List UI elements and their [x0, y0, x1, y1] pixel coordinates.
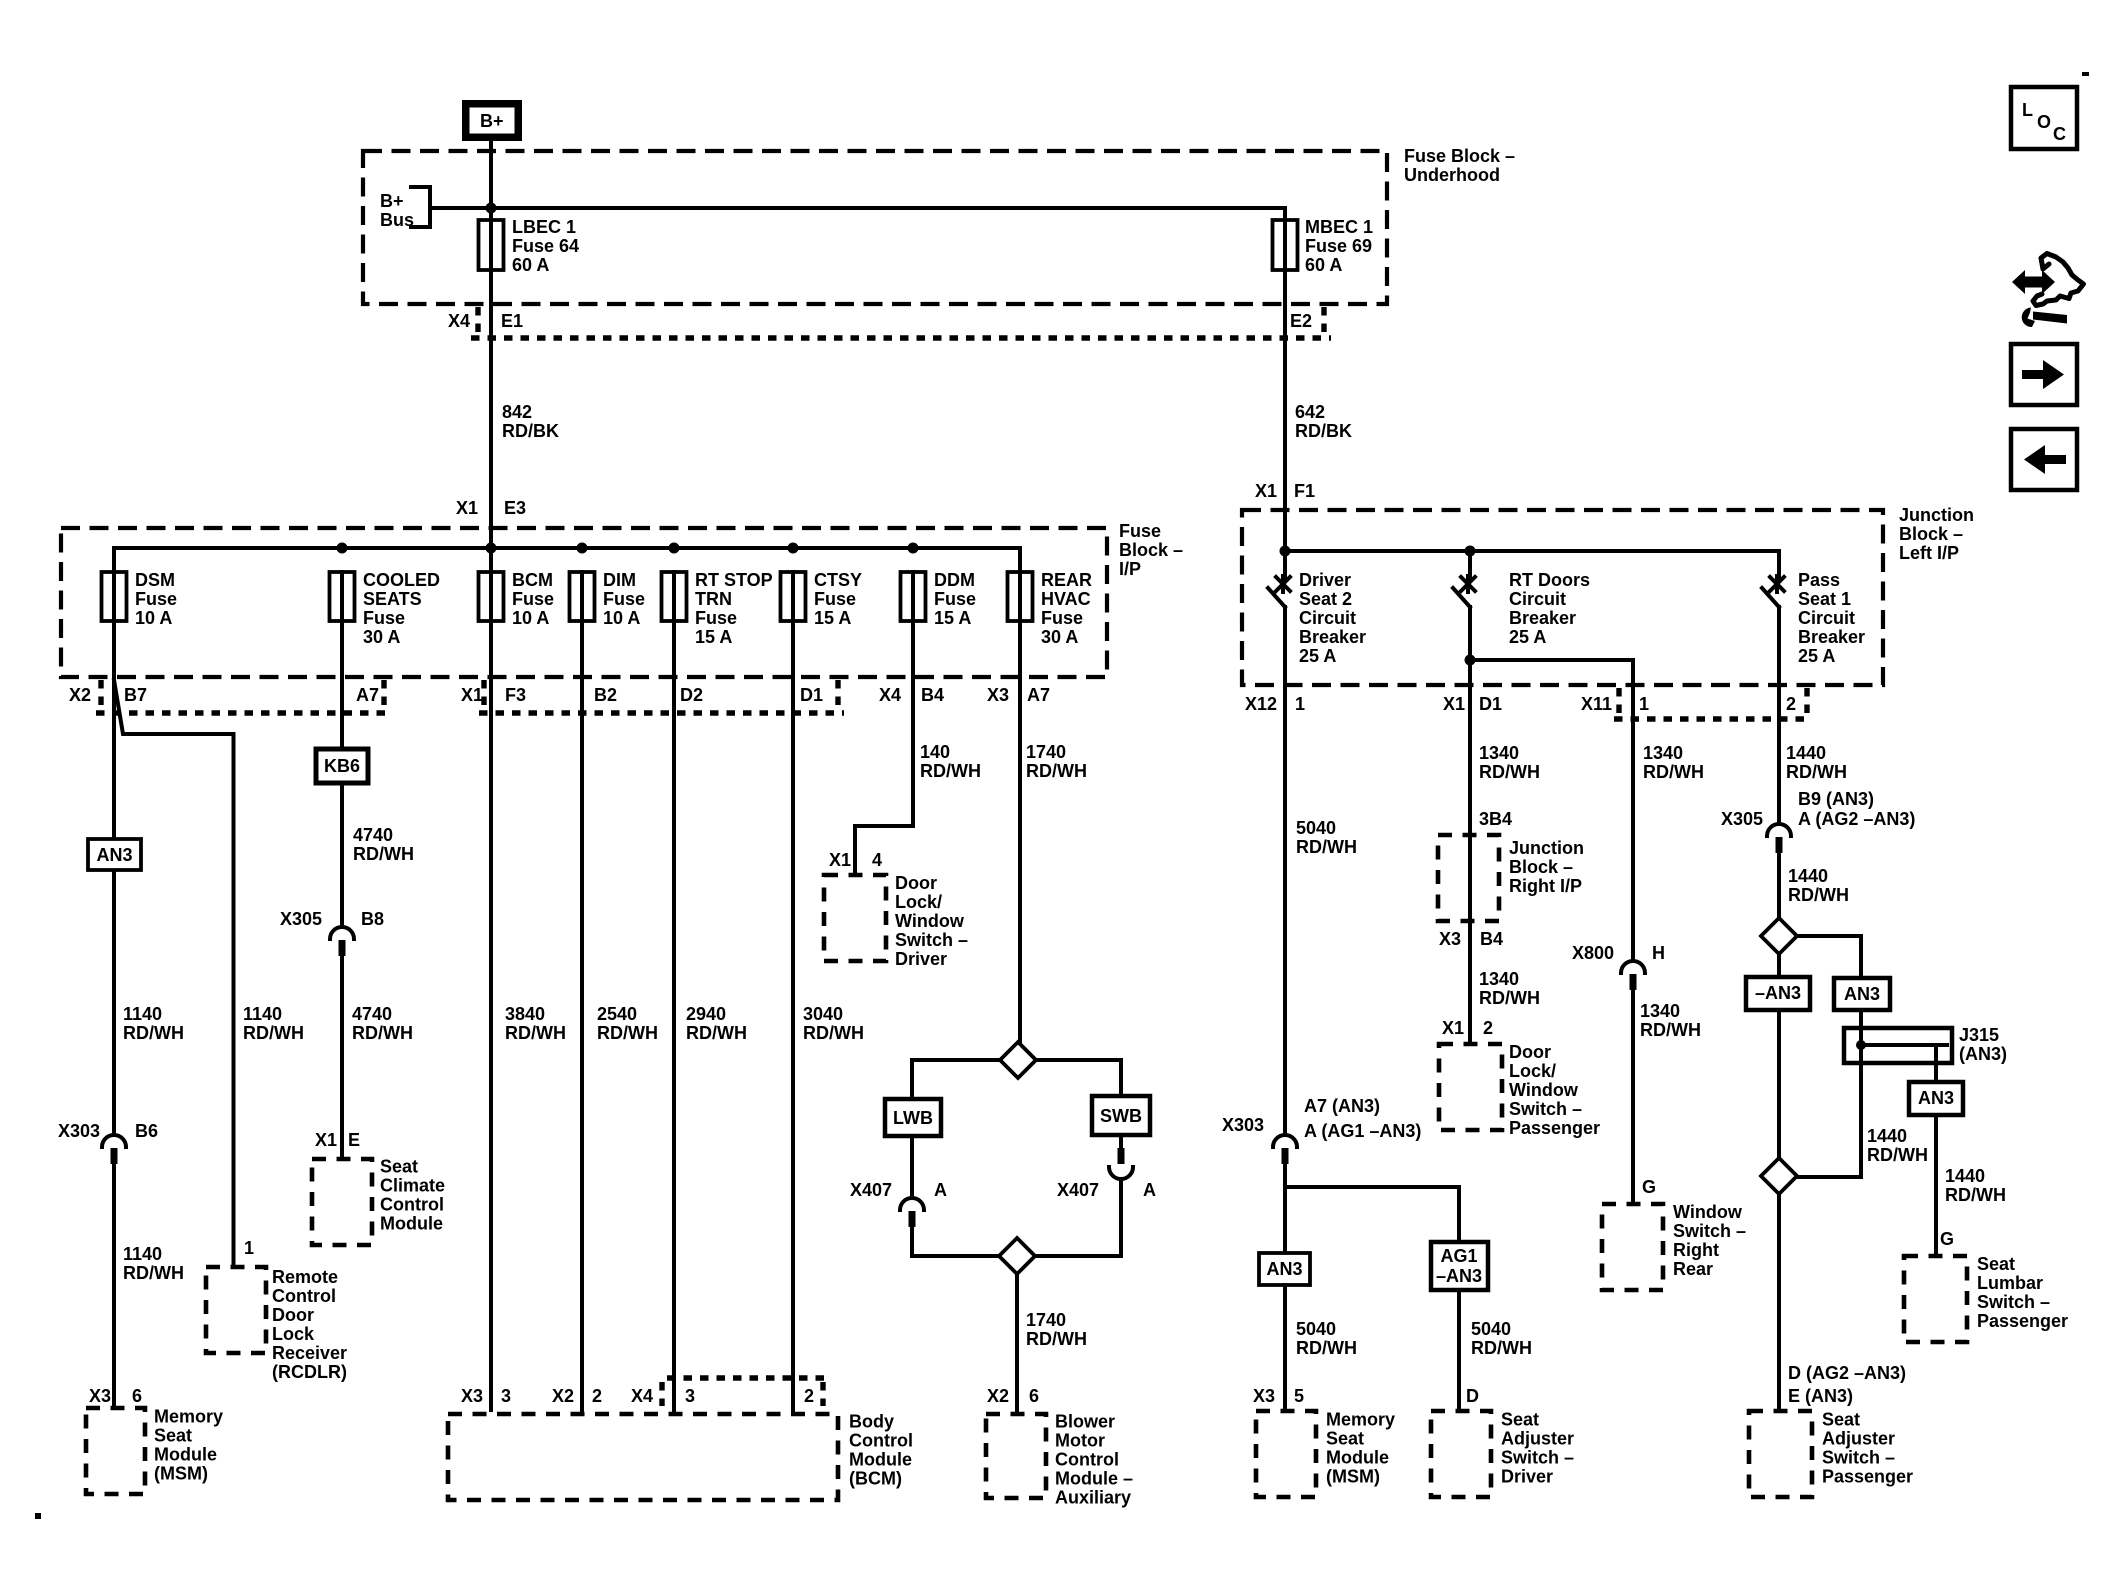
wire to LWB	[912, 1060, 1000, 1099]
svg-text:X2: X2	[987, 1386, 1009, 1406]
seat adjuster switch passenger	[1749, 1410, 1913, 1498]
wire 4740 RD/WH lower	[352, 1004, 413, 1043]
svg-text:X1: X1	[829, 850, 851, 870]
svg-text:Control: Control	[1055, 1450, 1119, 1470]
svg-text:Climate: Climate	[380, 1176, 445, 1196]
svg-text:Breaker: Breaker	[1299, 627, 1366, 647]
svg-text:G: G	[1940, 1229, 1954, 1249]
svg-text:1440: 1440	[1867, 1126, 1907, 1146]
svg-text:Module: Module	[154, 1445, 217, 1465]
door lock window switch passenger	[1439, 1042, 1600, 1138]
svg-text:RD/WH: RD/WH	[505, 1023, 566, 1043]
connector X303 B6	[58, 1121, 158, 1408]
svg-text:Fuse: Fuse	[603, 589, 645, 609]
svg-text:Fuse: Fuse	[814, 589, 856, 609]
wire 5040 RD/WH to seat adjuster	[1459, 1290, 1532, 1408]
label AN3 right	[1259, 1253, 1310, 1285]
svg-text:Passenger: Passenger	[1822, 1467, 1913, 1487]
svg-text:X4: X4	[879, 685, 901, 705]
svg-text:Control: Control	[380, 1195, 444, 1215]
junction	[1465, 655, 1476, 666]
svg-text:Switch –: Switch –	[1673, 1221, 1746, 1241]
svg-text:1140: 1140	[243, 1004, 282, 1024]
svg-text:J315: J315	[1959, 1025, 1999, 1045]
remote control door lock receiver RCDLR	[206, 1267, 347, 1382]
svg-text:X3: X3	[987, 685, 1009, 705]
svg-text:RD/WH: RD/WH	[1296, 837, 1357, 857]
wire branch to X11	[1470, 660, 1633, 960]
svg-text:1740: 1740	[1026, 1310, 1066, 1330]
svg-text:Breaker: Breaker	[1509, 608, 1576, 628]
connector X4 row pins E1 E2	[448, 307, 1331, 338]
pin X1 2	[1442, 1018, 1493, 1038]
label AN3 mid	[1834, 978, 1890, 1010]
wire 1340 RD/WH	[1479, 743, 1540, 782]
svg-text:X3: X3	[1253, 1386, 1275, 1406]
fuse RT STOP TRN	[662, 570, 773, 647]
svg-text:3B4: 3B4	[1479, 809, 1512, 829]
svg-text:RD/WH: RD/WH	[243, 1023, 304, 1043]
svg-text:(BCM): (BCM)	[849, 1469, 902, 1489]
svg-text:RD/BK: RD/BK	[502, 421, 559, 441]
svg-text:1: 1	[1639, 694, 1649, 714]
svg-text:Module: Module	[1326, 1448, 1389, 1468]
svg-text:1: 1	[244, 1238, 254, 1258]
connector X800 H	[1572, 943, 1665, 1204]
svg-text:A: A	[934, 1180, 947, 1200]
svg-text:60 A: 60 A	[1305, 255, 1342, 275]
svg-text:COOLED: COOLED	[363, 570, 440, 590]
splice diamond bottom	[999, 1238, 1035, 1274]
svg-text:–AN3: –AN3	[1755, 983, 1801, 1003]
wire 1140 RD/WH lower	[123, 1244, 184, 1283]
svg-text:TRN: TRN	[695, 589, 732, 609]
svg-text:RD/WH: RD/WH	[1867, 1145, 1928, 1165]
svg-text:2940: 2940	[686, 1004, 726, 1024]
svg-text:Driver: Driver	[1299, 570, 1351, 590]
svg-text:A: A	[1143, 1180, 1156, 1200]
wire 2940 RD/WH	[674, 621, 747, 1410]
svg-text:X3: X3	[89, 1386, 111, 1406]
junction	[486, 203, 497, 214]
wire 1140 RD/WH branch	[243, 1004, 304, 1043]
svg-text:(MSM): (MSM)	[154, 1464, 208, 1484]
svg-text:B8: B8	[361, 909, 384, 929]
svg-text:X11: X11	[1581, 694, 1612, 714]
svg-text:RD/BK: RD/BK	[1295, 421, 1352, 441]
svg-text:Lock: Lock	[272, 1324, 315, 1344]
wire 1340 RD/WH to window switch	[1640, 1001, 1701, 1040]
wire 3040 RD/WH	[793, 621, 864, 1410]
icon LOC box	[2011, 87, 2077, 149]
svg-text:AN3: AN3	[1918, 1088, 1954, 1108]
svg-text:1440: 1440	[1945, 1166, 1985, 1186]
svg-text:B2: B2	[594, 685, 617, 705]
svg-text:1440: 1440	[1788, 866, 1828, 886]
svg-text:X3: X3	[1439, 929, 1461, 949]
svg-text:DIM: DIM	[603, 570, 636, 590]
svg-text:Adjuster: Adjuster	[1822, 1429, 1895, 1449]
wire 3840 RD/WH	[491, 621, 566, 1410]
svg-text:Driver: Driver	[895, 949, 947, 969]
svg-text:Door: Door	[272, 1305, 314, 1325]
svg-text:F3: F3	[505, 685, 526, 705]
memory seat module MSM right	[1256, 1410, 1395, 1498]
svg-text:E (AN3): E (AN3)	[1788, 1386, 1853, 1406]
pin X1 D1	[1443, 694, 1502, 714]
svg-text:X1: X1	[1255, 481, 1277, 501]
svg-text:Lumbar: Lumbar	[1977, 1273, 2043, 1293]
svg-text:B7: B7	[124, 685, 147, 705]
svg-text:Window: Window	[895, 911, 965, 931]
circuit breaker pass seat 1	[1762, 551, 1865, 823]
seat lumbar switch passenger	[1904, 1254, 2068, 1342]
svg-text:Junction: Junction	[1509, 838, 1584, 858]
svg-text:Switch –: Switch –	[1509, 1099, 1582, 1119]
svg-text:Fuse Block –: Fuse Block –	[1404, 146, 1515, 166]
svg-text:10 A: 10 A	[512, 608, 549, 628]
svg-text:15 A: 15 A	[695, 627, 732, 647]
wire through -AN3	[1777, 954, 1781, 1158]
svg-text:A7 (AN3): A7 (AN3)	[1304, 1096, 1380, 1116]
svg-text:Pass: Pass	[1798, 570, 1840, 590]
svg-text:Driver: Driver	[1501, 1467, 1553, 1487]
svg-text:DSM: DSM	[135, 570, 175, 590]
svg-text:Seat: Seat	[1326, 1429, 1364, 1449]
svg-text:RT Doors: RT Doors	[1509, 570, 1590, 590]
pin X1 4	[829, 850, 882, 870]
blower motor control module auxiliary	[986, 1412, 1133, 1508]
svg-text:BCM: BCM	[512, 570, 553, 590]
svg-text:Seat: Seat	[154, 1426, 192, 1446]
svg-text:X2: X2	[552, 1386, 574, 1406]
body control module BCM	[448, 1412, 913, 1501]
svg-text:RD/WH: RD/WH	[352, 1023, 413, 1043]
connector X305 B8	[280, 909, 384, 1159]
svg-text:X1: X1	[315, 1130, 337, 1150]
svg-text:(MSM): (MSM)	[1326, 1467, 1380, 1487]
svg-text:RD/WH: RD/WH	[1945, 1185, 2006, 1205]
junction	[1280, 546, 1291, 557]
svg-text:30 A: 30 A	[1041, 627, 1078, 647]
junction	[788, 543, 799, 554]
pin X3 B4	[1439, 929, 1503, 949]
svg-text:25 A: 25 A	[1299, 646, 1336, 666]
svg-text:Block –: Block –	[1119, 540, 1183, 560]
wire 642 RD/BK	[1295, 402, 1352, 441]
svg-text:30 A: 30 A	[363, 627, 400, 647]
svg-text:3840: 3840	[505, 1004, 545, 1024]
icon adjust wiring squiggle	[2012, 254, 2084, 328]
svg-text:842: 842	[502, 402, 532, 422]
wire 5040 RD/WH to MSM	[1285, 1285, 1357, 1408]
svg-text:2: 2	[1786, 694, 1796, 714]
svg-text:Switch –: Switch –	[1501, 1448, 1574, 1468]
svg-text:Window: Window	[1673, 1202, 1743, 1222]
fuse BCM	[479, 570, 555, 628]
splice diamond right bottom	[1761, 1158, 1797, 1194]
tiny mark	[35, 1513, 41, 1519]
svg-text:Right: Right	[1673, 1240, 1719, 1260]
memory seat module MSM	[86, 1407, 223, 1495]
wire 1440 RD/WH from J315	[1797, 1063, 1928, 1177]
fuse MBEC 1 Fuse 69	[1273, 208, 1374, 551]
svg-text:Module –: Module –	[1055, 1469, 1133, 1489]
svg-text:15 A: 15 A	[934, 608, 971, 628]
svg-text:RD/WH: RD/WH	[1788, 885, 1849, 905]
circuit breaker driver seat 2	[1268, 551, 1366, 1134]
node B+ Bus	[380, 187, 430, 230]
svg-text:D1: D1	[1479, 694, 1502, 714]
wire DSM to memory seat module	[112, 621, 116, 1134]
svg-text:Circuit: Circuit	[1299, 608, 1356, 628]
fuse REAR HVAC	[1008, 570, 1093, 647]
svg-text:1140: 1140	[123, 1004, 162, 1024]
svg-text:Bus: Bus	[380, 210, 414, 230]
pin X1 E	[315, 1130, 360, 1150]
svg-text:Lock/: Lock/	[895, 892, 942, 912]
svg-text:Fuse: Fuse	[695, 608, 737, 628]
pin X3 A7	[987, 685, 1050, 705]
svg-text:3: 3	[501, 1386, 511, 1406]
svg-text:X12: X12	[1245, 694, 1277, 714]
svg-text:SWB: SWB	[1100, 1106, 1142, 1126]
svg-text:Door: Door	[1509, 1042, 1551, 1062]
wire 1740 RD/WH to blower	[1017, 1274, 1087, 1410]
svg-text:Memory: Memory	[154, 1407, 223, 1427]
svg-text:Circuit: Circuit	[1509, 589, 1566, 609]
wire 140 RD/WH	[855, 621, 981, 875]
connector X407 A right	[1035, 1135, 1156, 1256]
svg-text:Passenger: Passenger	[1509, 1118, 1600, 1138]
svg-text:Switch –: Switch –	[895, 930, 968, 950]
svg-text:Junction: Junction	[1899, 505, 1974, 525]
svg-text:4740: 4740	[353, 825, 393, 845]
svg-text:15 A: 15 A	[814, 608, 851, 628]
wire AN3 to J315	[1859, 1010, 1863, 1028]
svg-text:F1: F1	[1294, 481, 1315, 501]
svg-text:Blower: Blower	[1055, 1412, 1115, 1432]
svg-text:1340: 1340	[1643, 743, 1683, 763]
svg-text:REAR: REAR	[1041, 570, 1092, 590]
svg-text:RD/WH: RD/WH	[123, 1023, 184, 1043]
pin X12 1	[1245, 694, 1305, 714]
connector strip X2 pins	[69, 680, 390, 713]
svg-text:Fuse: Fuse	[1041, 608, 1083, 628]
connector X305 right	[1721, 789, 1915, 918]
wire to seat adjuster passenger	[1777, 1194, 1781, 1408]
svg-text:RD/WH: RD/WH	[1643, 762, 1704, 782]
label -AN3	[1746, 977, 1810, 1010]
svg-text:60 A: 60 A	[512, 255, 549, 275]
svg-text:I/P: I/P	[1119, 559, 1141, 579]
svg-text:AN3: AN3	[1844, 984, 1880, 1004]
svg-text:H: H	[1652, 943, 1665, 963]
wire cooled seats	[340, 621, 344, 926]
svg-text:X1: X1	[456, 498, 478, 518]
svg-text:X4: X4	[631, 1386, 653, 1406]
pin X3 5	[1253, 1386, 1304, 1406]
svg-text:X303: X303	[1222, 1115, 1264, 1135]
svg-text:Window: Window	[1509, 1080, 1579, 1100]
svg-text:O: O	[2037, 112, 2051, 132]
svg-text:2540: 2540	[597, 1004, 637, 1024]
svg-text:X800: X800	[1572, 943, 1614, 963]
svg-text:5040: 5040	[1296, 818, 1336, 838]
svg-text:1: 1	[1295, 694, 1305, 714]
svg-text:X1: X1	[461, 685, 483, 705]
svg-text:X407: X407	[850, 1180, 892, 1200]
wire B+ bus	[430, 206, 1285, 210]
svg-text:Control: Control	[272, 1286, 336, 1306]
svg-text:RD/WH: RD/WH	[1479, 988, 1540, 1008]
svg-text:B+: B+	[380, 191, 404, 211]
label LWB	[885, 1099, 941, 1136]
junction	[577, 543, 588, 554]
junction	[1465, 546, 1476, 557]
wire 1740 RD/WH	[1020, 621, 1087, 1042]
wire 1440 RD/WH below X305	[1788, 866, 1849, 905]
svg-text:Underhood: Underhood	[1404, 165, 1500, 185]
svg-text:140: 140	[920, 742, 950, 762]
svg-text:X305: X305	[280, 909, 322, 929]
svg-text:10 A: 10 A	[135, 608, 172, 628]
seat climate control module	[312, 1157, 445, 1246]
svg-text:CTSY: CTSY	[814, 570, 862, 590]
svg-text:Fuse: Fuse	[512, 589, 554, 609]
svg-text:Passenger: Passenger	[1977, 1311, 2068, 1331]
label SWB	[1092, 1096, 1150, 1135]
svg-text:Motor: Motor	[1055, 1431, 1105, 1451]
svg-text:Seat: Seat	[380, 1157, 418, 1177]
svg-text:X303: X303	[58, 1121, 100, 1141]
svg-text:E3: E3	[504, 498, 526, 518]
wire junction bus	[1285, 551, 1779, 578]
svg-text:B4: B4	[921, 685, 944, 705]
svg-text:Memory: Memory	[1326, 1410, 1395, 1430]
window switch right rear	[1602, 1202, 1746, 1290]
svg-text:E2: E2	[1290, 311, 1312, 331]
svg-text:3: 3	[685, 1386, 695, 1406]
svg-text:4: 4	[872, 850, 882, 870]
pin X1 F1	[1255, 481, 1315, 501]
wire 1340 RD/WH lower	[1479, 969, 1540, 1008]
svg-text:5040: 5040	[1471, 1319, 1511, 1339]
svg-text:Fuse: Fuse	[135, 589, 177, 609]
junction block right I/P	[1438, 835, 1584, 921]
wire 4740 RD/WH	[353, 825, 414, 864]
svg-text:6: 6	[132, 1386, 142, 1406]
svg-text:C: C	[2053, 124, 2066, 144]
svg-text:G: G	[1642, 1177, 1656, 1197]
svg-text:Adjuster: Adjuster	[1501, 1429, 1574, 1449]
svg-text:RD/WH: RD/WH	[353, 844, 414, 864]
svg-text:RD/WH: RD/WH	[1786, 762, 1847, 782]
svg-text:5040: 5040	[1296, 1319, 1336, 1339]
junction block left I/P box	[1242, 510, 1883, 685]
svg-text:RT STOP: RT STOP	[695, 570, 773, 590]
svg-text:RD/WH: RD/WH	[920, 761, 981, 781]
label Junction Block - Left I/P	[1899, 505, 1974, 563]
splice pack J315 (AN3)	[1844, 1025, 2007, 1082]
svg-text:10 A: 10 A	[603, 608, 640, 628]
svg-text:AN3: AN3	[1266, 1259, 1302, 1279]
svg-text:B4: B4	[1480, 929, 1503, 949]
svg-text:AG1: AG1	[1440, 1246, 1477, 1266]
svg-text:X1: X1	[1442, 1018, 1464, 1038]
svg-text:RD/WH: RD/WH	[1640, 1020, 1701, 1040]
fuse DDM	[901, 570, 977, 628]
tiny mark	[2082, 72, 2089, 76]
svg-text:RD/WH: RD/WH	[1296, 1338, 1357, 1358]
svg-text:B6: B6	[135, 1121, 158, 1141]
fuse CTSY	[781, 570, 863, 628]
svg-text:–AN3: –AN3	[1436, 1266, 1482, 1286]
label AG1 -AN3	[1431, 1242, 1488, 1290]
svg-text:A7: A7	[1027, 685, 1050, 705]
svg-text:(RCDLR): (RCDLR)	[272, 1362, 347, 1382]
svg-text:Fuse 69: Fuse 69	[1305, 236, 1372, 256]
svg-text:RD/WH: RD/WH	[597, 1023, 658, 1043]
door lock window switch driver	[824, 873, 968, 969]
label AN3	[88, 839, 141, 870]
fuse DSM	[102, 570, 178, 628]
svg-text:Seat: Seat	[1977, 1254, 2015, 1274]
seat adjuster switch driver	[1431, 1410, 1574, 1498]
svg-text:RD/WH: RD/WH	[1026, 761, 1087, 781]
svg-text:LWB: LWB	[893, 1108, 933, 1128]
svg-text:RD/WH: RD/WH	[123, 1263, 184, 1283]
svg-text:D1: D1	[800, 685, 823, 705]
svg-text:Seat: Seat	[1822, 1410, 1860, 1430]
wire 2540 RD/WH	[582, 621, 658, 1410]
svg-text:B+: B+	[480, 111, 504, 131]
fuse block underhood box	[363, 151, 1387, 304]
svg-text:Breaker: Breaker	[1798, 627, 1865, 647]
svg-text:Receiver: Receiver	[272, 1343, 347, 1363]
splice diamond top	[1000, 1042, 1036, 1078]
svg-text:Block –: Block –	[1509, 857, 1573, 877]
svg-text:MBEC 1: MBEC 1	[1305, 217, 1373, 237]
svg-text:Lock/: Lock/	[1509, 1061, 1556, 1081]
svg-text:E: E	[348, 1130, 360, 1150]
connector X11 strip pins 1 2	[1581, 688, 1812, 719]
svg-text:RD/WH: RD/WH	[686, 1023, 747, 1043]
svg-text:642: 642	[1295, 402, 1325, 422]
svg-text:(AN3): (AN3)	[1959, 1044, 2007, 1064]
junction	[908, 543, 919, 554]
wire 1140 RD/WH	[123, 1004, 184, 1043]
svg-text:Seat 2: Seat 2	[1299, 589, 1352, 609]
svg-text:L: L	[2022, 100, 2033, 120]
svg-text:Switch –: Switch –	[1822, 1448, 1895, 1468]
svg-text:Body: Body	[849, 1412, 894, 1432]
svg-text:AN3: AN3	[96, 845, 132, 865]
svg-text:RD/WH: RD/WH	[1471, 1338, 1532, 1358]
svg-text:RD/WH: RD/WH	[1479, 762, 1540, 782]
svg-text:Remote: Remote	[272, 1267, 338, 1287]
svg-text:X3: X3	[461, 1386, 483, 1406]
svg-text:Rear: Rear	[1673, 1259, 1713, 1279]
svg-text:E1: E1	[501, 311, 523, 331]
svg-text:X2: X2	[69, 685, 91, 705]
svg-text:B9 (AN3): B9 (AN3)	[1798, 789, 1874, 809]
connector X4 strip at BCM	[662, 1378, 828, 1406]
svg-text:Auxiliary: Auxiliary	[1055, 1488, 1131, 1508]
svg-text:1340: 1340	[1479, 969, 1519, 989]
wire branch to AG1	[1285, 1187, 1459, 1242]
wire 5040 RD/WH	[1296, 818, 1357, 857]
